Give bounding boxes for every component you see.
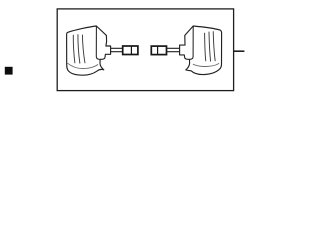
- lens base line L2: [193, 63, 219, 66]
- lens base line L1: [68, 63, 99, 68]
- black square marker at left edge: [5, 67, 13, 75]
- lamp body L2 (right side marker lamp): [180, 26, 222, 75]
- callout leader tick at right border: [233, 50, 244, 52]
- connector plug C2: [151, 46, 166, 55]
- pigtail stem L2: [167, 48, 180, 51]
- pigtail stem L1: [111, 48, 123, 51]
- connector divider C2: [157, 46, 159, 55]
- lens hatch lines L2: [205, 31, 216, 61]
- lens edge line L1: [96, 26, 99, 59]
- lens hatch lines L1: [73, 34, 85, 63]
- connector plug C1: [123, 46, 138, 55]
- lens edge line L2: [190, 26, 193, 59]
- lamp body L1 (left side marker lamp): [67, 26, 111, 75]
- connector divider C1: [130, 46, 132, 55]
- border frame of part image: [57, 9, 233, 91]
